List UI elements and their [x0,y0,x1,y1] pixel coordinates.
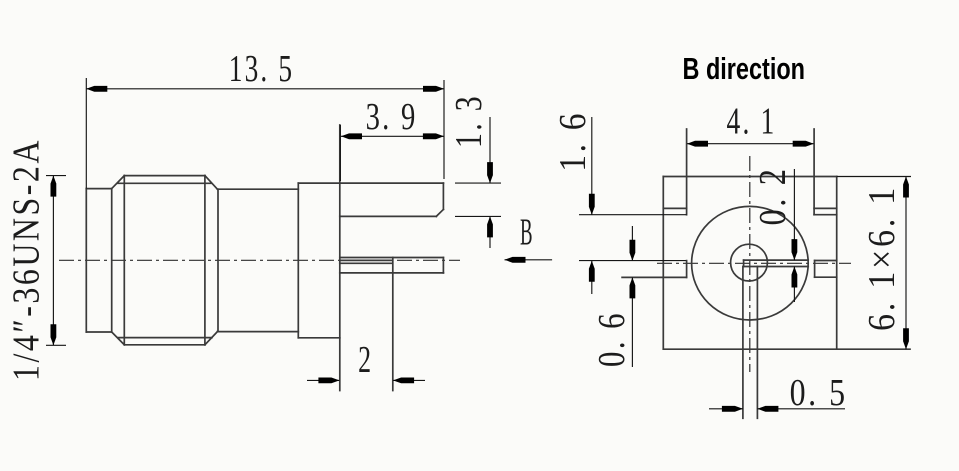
view title B direction [683,51,806,86]
svg-text:B direction: B direction [683,51,806,86]
svg-text:2: 2 [358,339,373,381]
svg-text:0. 2: 0. 2 [752,167,794,226]
dimension 6.1x6.1 [837,177,911,350]
B view centerlines [657,156,851,372]
svg-text:B: B [520,212,534,254]
top leg [298,183,443,216]
bottom pin [743,267,758,419]
bottom leg [392,258,394,391]
svg-text:0. 6: 0. 6 [591,311,633,367]
dimension 4.1 [687,101,814,147]
dimension 2 [307,339,425,383]
svg-text:13. 5: 13. 5 [229,48,295,90]
center pin side view [340,258,444,273]
svg-text:1. 3: 1. 3 [448,94,490,148]
left side leg tab [579,261,687,278]
left corner notch [579,129,687,215]
right side leg tab [815,261,837,278]
right corner notch [814,129,837,215]
dimension 1.6 [552,111,595,294]
section arrow B [505,212,553,263]
dimension 13.5 [86,48,444,188]
svg-text:6. 1×6. 1: 6. 1×6. 1 [861,185,903,331]
thread dimension (nut height) [46,176,66,346]
barrel [217,189,298,331]
barrel circle [692,206,809,320]
centerline left view [59,259,460,261]
thread label 1/4"-36UNS-2A [6,138,48,381]
dimension 0.5 [709,372,848,414]
dielectric circle [731,244,768,281]
flange body [298,125,340,391]
svg-text:0. 5: 0. 5 [790,372,848,414]
svg-text:3. 9: 3. 9 [366,96,418,138]
svg-text:1. 6: 1. 6 [552,111,594,172]
hex nut [112,176,218,345]
dimension 1.3 [448,94,501,248]
svg-text:1/4″-36UNS-2A: 1/4″-36UNS-2A [6,138,48,381]
dimension 3.9 [340,96,444,181]
pin slot [744,260,809,266]
square flange outline [663,177,910,350]
front piece (mating face) [86,189,111,332]
dimension 0.6 [591,226,635,367]
dimension 0.2 [752,167,797,303]
svg-text:4. 1: 4. 1 [727,101,777,143]
